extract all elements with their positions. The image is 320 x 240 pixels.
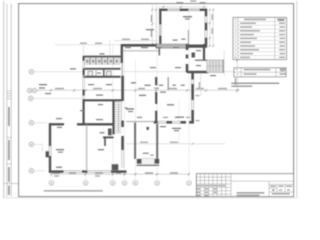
east wing pier	[192, 53, 196, 58]
bottom axis bubbles	[49, 181, 191, 186]
entry wall	[187, 71, 209, 73]
bathroom mid wall	[83, 68, 120, 70]
top dim ticks	[162, 6, 205, 8]
bottom note text	[44, 190, 103, 192]
terrace base line	[137, 164, 160, 166]
south wall windows	[158, 121, 181, 123]
sheet bottom edge	[4, 197, 297, 199]
room number labels row	[131, 82, 185, 86]
left bubble digits	[29, 71, 35, 171]
left wing east wall	[121, 76, 124, 150]
bathroom divider	[103, 69, 105, 77]
east wall window bridge	[121, 63, 123, 76]
title block texts	[197, 185, 292, 196]
corridor partition vertical	[158, 48, 160, 56]
notes text lines	[231, 83, 279, 87]
bottom-left room south wall	[49, 170, 127, 173]
fireplace block	[112, 164, 119, 170]
top room top wall	[159, 9, 207, 11]
terrace inner mark	[147, 127, 149, 130]
main south wall piers	[154, 121, 194, 124]
left axis bubbles	[27, 70, 36, 173]
left wall window	[159, 25, 162, 36]
hall wall	[83, 99, 122, 101]
small partition	[167, 77, 169, 90]
right dim chain of top room	[210, 8, 213, 46]
east wall lower window 2	[192, 100, 194, 110]
south wall window 1	[64, 171, 83, 173]
bathroom lower wall	[83, 76, 120, 78]
stair sill block	[108, 129, 112, 136]
east wall upper	[186, 44, 189, 73]
legend table header text	[235, 19, 285, 21]
west wall windows	[83, 61, 85, 99]
west wall pier	[46, 151, 49, 157]
terrace east wall	[156, 124, 158, 159]
central horizontal dimension chain	[33, 88, 240, 92]
west wall	[82, 56, 84, 124]
kitchen extension line	[109, 40, 111, 56]
top room bottom-right wall	[188, 44, 207, 47]
vestibule south wall	[103, 136, 114, 138]
top dim text	[176, 0, 205, 3]
stair left wall	[112, 100, 114, 134]
east wing inner wall	[203, 44, 205, 60]
top room right wall	[205, 9, 208, 47]
legend table row texts	[235, 23, 285, 58]
terrace column east	[154, 159, 159, 164]
corridor axis extension line	[123, 71, 237, 73]
bottom grand dimension line	[50, 172, 190, 176]
porch dim line	[223, 50, 225, 76]
sheet left edge	[3, 1, 5, 198]
dim line left of middle top wall	[55, 44, 121, 46]
top wall window 2	[189, 9, 200, 12]
bottom-left room west wall	[49, 123, 51, 173]
east wall lower	[191, 72, 194, 123]
toilet fixture 2	[107, 71, 112, 76]
horizontal axis leaders	[33, 72, 83, 171]
top room gray floor band	[156, 44, 189, 48]
east wall lower window 1	[192, 80, 194, 85]
summary table text	[236, 69, 285, 75]
bottom bubble digits	[51, 182, 190, 183]
dim text above middle block	[122, 39, 149, 40]
living room partition wall	[155, 77, 157, 122]
stair door opening lines	[121, 101, 123, 121]
dim line above middle block	[114, 40, 158, 42]
terrace opening line	[126, 121, 154, 123]
left dim chain of top room	[152, 5, 156, 44]
lower middle dimension line	[126, 142, 225, 145]
left stamp vertical text	[8, 107, 9, 195]
west wall window	[49, 146, 51, 156]
toilet fixture 1	[88, 71, 93, 76]
south wall dim texts	[163, 117, 190, 118]
terrace landing	[142, 158, 155, 165]
top wall window 1	[168, 9, 180, 12]
left stamp column	[4, 4, 19, 197]
corridor partition	[123, 50, 159, 52]
right wall window 1	[205, 17, 208, 23]
right dim text of top room	[212, 14, 213, 34]
top room interior partition	[187, 30, 189, 44]
entry porch	[207, 60, 223, 73]
middle block top wall	[122, 44, 157, 47]
right wall window 2	[205, 31, 208, 38]
bottom-left room divider	[86, 124, 88, 171]
left dim text of top room	[151, 15, 152, 37]
right vertical dimension chain	[235, 45, 239, 92]
bathroom fixtures row	[84, 58, 120, 64]
terrace column west	[137, 159, 142, 164]
stair side text	[125, 107, 128, 108]
bathroom top wall	[83, 56, 120, 58]
east wall window lines	[122, 150, 124, 168]
middle block left wall upper	[121, 44, 123, 63]
bathroom divider 2	[95, 69, 97, 77]
south wall window 2	[88, 171, 112, 173]
terrace west wall	[134, 123, 136, 159]
closet wall	[104, 137, 106, 146]
west wall extension line	[83, 46, 85, 57]
summary table	[234, 68, 286, 77]
sheet right edge	[296, 1, 298, 198]
vertical axis lines	[51, 8, 189, 179]
staircase treads	[115, 102, 122, 132]
terrace label	[143, 153, 154, 156]
inner right dimension chain	[196, 74, 201, 121]
drawing frame	[19, 4, 294, 197]
east wing partition	[195, 59, 207, 61]
top dimension line	[158, 6, 208, 8]
bottom-left room top wall	[49, 123, 114, 125]
upper dim texts	[80, 43, 102, 44]
top room left wall	[159, 9, 161, 46]
